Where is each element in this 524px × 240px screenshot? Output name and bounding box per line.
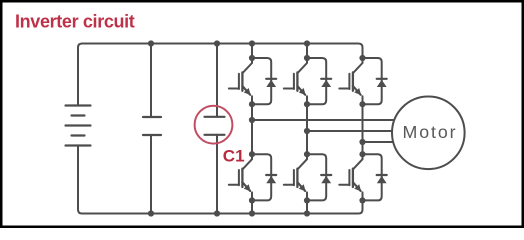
svg-text:C1: C1 [223, 147, 245, 166]
svg-text:Inverter circuit: Inverter circuit [15, 12, 135, 32]
svg-text:Motor: Motor [403, 122, 458, 142]
